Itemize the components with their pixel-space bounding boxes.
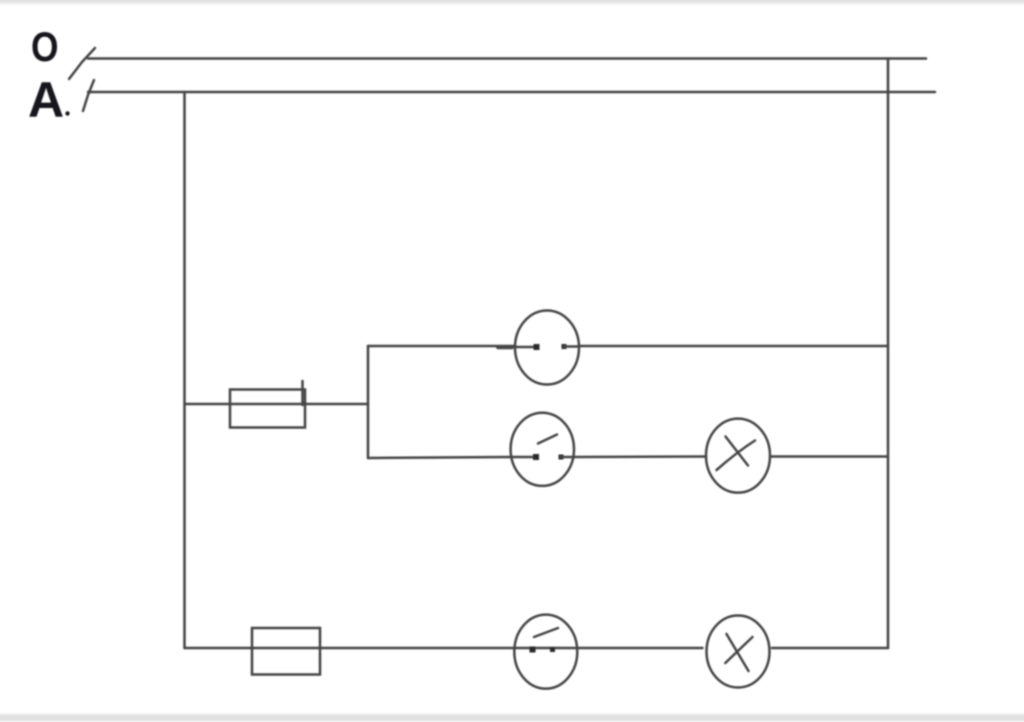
switch slash on bus O xyxy=(69,48,95,79)
svg-text:A: A xyxy=(28,72,64,128)
bus O wire xyxy=(88,57,926,60)
lamp L2 cross stroke 1 xyxy=(727,634,749,671)
wire: switch S3 to lamp L2 xyxy=(577,647,702,650)
switch S2 right contact dot xyxy=(559,455,564,460)
wire: switch S1 to right riser xyxy=(579,345,888,348)
switch slash on bus A xyxy=(83,80,94,111)
wire: branch to switch S2 xyxy=(368,457,511,458)
switch S2 right contact xyxy=(561,456,574,459)
lamp L2 cross stroke 2 xyxy=(725,637,752,663)
heavy dash before switch S1 xyxy=(498,346,512,350)
wire: lamp L2 to right riser xyxy=(772,647,888,650)
fuse F1 element wire xyxy=(230,403,305,406)
lamp L2 body xyxy=(707,616,770,688)
fuse F2 element wire xyxy=(252,647,320,650)
wire: feeder from left riser to fuse F1 xyxy=(185,403,231,406)
switch S1 right contact xyxy=(564,345,579,348)
switch S2 left contact xyxy=(511,456,537,459)
fuse F2 body xyxy=(252,628,320,675)
switch S1 right contact dot xyxy=(562,344,567,349)
switch S1 body xyxy=(515,311,579,385)
switch S2 left contact dot xyxy=(533,454,539,460)
switch S3 through wire xyxy=(514,647,577,650)
wire: branch vertical xyxy=(367,346,370,458)
switch S1 left contact dot xyxy=(534,344,540,350)
wire: lamp L1 to right riser xyxy=(770,455,888,458)
bus A wire xyxy=(88,91,935,94)
lamp L1 cross stroke 2 xyxy=(717,441,756,471)
wire: fuse F2 to switch S3 xyxy=(320,647,514,650)
wire: left vertical riser from bus A xyxy=(183,92,186,648)
wire: branch to switch S1 xyxy=(368,345,515,348)
switch S2 lever xyxy=(538,435,557,444)
switch S3 left contact dot xyxy=(530,647,536,653)
switch S2 body xyxy=(511,413,574,486)
svg-text:O: O xyxy=(31,23,59,70)
lamp L1 cross stroke 1 xyxy=(726,437,749,466)
fuse F1 striker tick xyxy=(301,381,304,405)
wire: bottom row from left riser to fuse F2 xyxy=(185,647,253,650)
fuse F1 body xyxy=(230,390,305,428)
lamp L1 body xyxy=(706,419,770,493)
switch S1 left contact xyxy=(515,346,536,349)
switch S3 right contact dot xyxy=(550,647,555,652)
switch S3 body xyxy=(514,615,577,689)
switch S3 lever xyxy=(534,628,558,637)
wire: switch S2 to lamp L1 xyxy=(574,455,706,458)
period after A label xyxy=(65,111,69,115)
wire: fuse F1 to branch point xyxy=(305,403,368,406)
wire: right vertical riser from bus O xyxy=(887,59,890,649)
